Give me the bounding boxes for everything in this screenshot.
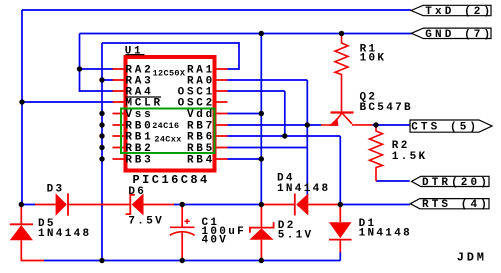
svg-text:RB5: RB5 (187, 143, 215, 155)
svg-text:10K: 10K (360, 53, 387, 65)
svg-text:JDM: JDM (457, 251, 487, 265)
svg-text:PIC16C84: PIC16C84 (133, 173, 210, 187)
svg-text:1N4148: 1N4148 (359, 228, 412, 240)
svg-text:RTS (4): RTS (4) (422, 199, 490, 211)
svg-text:RB2: RB2 (125, 143, 153, 155)
svg-text:12C50X: 12C50X (153, 68, 186, 78)
svg-text:Vss: Vss (125, 109, 153, 121)
svg-text:BC547B: BC547B (360, 102, 413, 114)
svg-text:RB4: RB4 (187, 154, 215, 166)
svg-text:1.5K: 1.5K (392, 151, 428, 163)
svg-text:24C16: 24C16 (152, 121, 179, 131)
svg-text:5.1V: 5.1V (278, 230, 314, 242)
svg-text:OSC2: OSC2 (178, 97, 215, 109)
svg-text:DTR(20): DTR(20) (422, 177, 490, 189)
svg-text:7.5V: 7.5V (128, 216, 164, 228)
svg-text:24Cxx: 24Cxx (154, 134, 181, 144)
svg-text:Vdd: Vdd (187, 109, 215, 121)
svg-text:1N4148: 1N4148 (38, 228, 91, 240)
svg-text:RB1: RB1 (125, 131, 153, 143)
svg-text:TxD (2): TxD (2) (425, 6, 493, 18)
svg-text:GND (7): GND (7) (425, 29, 493, 41)
svg-text:U1: U1 (125, 45, 144, 57)
svg-text:40V: 40V (202, 234, 229, 246)
svg-text:CTS (5): CTS (5) (411, 122, 479, 134)
svg-text:RB6: RB6 (187, 131, 215, 143)
svg-text:D6: D6 (128, 186, 146, 198)
svg-text:MCLR: MCLR (125, 97, 162, 109)
svg-text:RB3: RB3 (125, 154, 153, 166)
svg-text:1N4148: 1N4148 (277, 183, 330, 195)
svg-text:D3: D3 (47, 184, 65, 196)
